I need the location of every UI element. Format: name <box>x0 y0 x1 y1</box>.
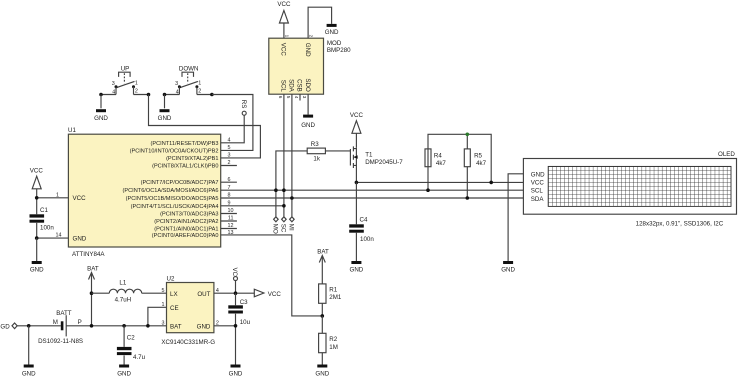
VCC symbol above T1 <box>350 112 364 148</box>
pin6 stub PA7 <box>221 181 237 183</box>
node UP right <box>147 93 151 97</box>
svg-text:(PCINT8/XTAL1/CLKI)PB0: (PCINT8/XTAL1/CLKI)PB0 <box>152 164 218 170</box>
svg-text:CSB: CSB <box>296 79 303 92</box>
pushbutton DOWN <box>165 66 212 96</box>
wire GD to battery <box>17 325 61 327</box>
svg-text:SC: SC <box>280 224 287 233</box>
node C2 <box>122 324 126 328</box>
svg-text:3: 3 <box>302 96 307 99</box>
svg-text:1: 1 <box>284 35 289 38</box>
svg-text:OUT: OUT <box>197 291 210 298</box>
svg-text:SDO: SDO <box>304 78 311 92</box>
node BAT battery row <box>90 324 94 328</box>
capacitor C4 <box>349 182 374 261</box>
svg-text:MO: MO <box>272 224 279 234</box>
svg-text:VC: VC <box>231 268 238 277</box>
svg-text:1M: 1M <box>329 344 338 351</box>
ground below UP <box>94 95 108 123</box>
svg-text:3: 3 <box>112 81 115 87</box>
node OUT <box>234 291 238 295</box>
resistor R3 <box>307 141 325 163</box>
svg-text:(PCINT5/OC1B/MISO/DO/ADC5)PA5: (PCINT5/OC1B/MISO/DO/ADC5)PA5 <box>126 196 219 202</box>
svg-text:L1: L1 <box>119 280 126 287</box>
wire pin14 GND <box>37 237 69 239</box>
wire OLED GND <box>508 174 523 262</box>
ground below DOWN <box>158 95 172 123</box>
pull-up rail <box>428 134 491 190</box>
svg-text:C2: C2 <box>127 334 135 341</box>
svg-text:1: 1 <box>135 81 138 87</box>
node R4 bottom <box>426 188 430 192</box>
svg-text:(PCINT10/INT0/OC0A/CKOUT)PB2: (PCINT10/INT0/OC0A/CKOUT)PB2 <box>130 148 219 154</box>
svg-text:GND: GND <box>30 266 44 273</box>
node CE <box>146 324 150 328</box>
svg-text:GD: GD <box>0 323 10 330</box>
svg-text:MOD: MOD <box>327 40 342 47</box>
svg-text:(PCINT11/RESET/DW)PB3: (PCINT11/RESET/DW)PB3 <box>151 141 219 147</box>
svg-text:4: 4 <box>294 96 299 99</box>
node rail to VCC row <box>489 181 493 185</box>
svg-text:U2: U2 <box>167 276 175 283</box>
node MO row <box>274 188 278 192</box>
svg-text:6: 6 <box>278 96 283 99</box>
svg-text:GND: GND <box>531 171 545 178</box>
svg-text:ATTINY84A: ATTINY84A <box>72 251 105 258</box>
wire UP to pin3 PB1 <box>149 95 261 158</box>
svg-text:R1: R1 <box>329 286 337 293</box>
svg-text:(PCINT0/AREF/ADC0)PA0: (PCINT0/AREF/ADC0)PA0 <box>152 233 219 239</box>
wire SDO to ground <box>307 94 309 114</box>
svg-text:BAT: BAT <box>170 323 182 330</box>
svg-text:RS: RS <box>240 100 247 109</box>
ground below C1 <box>30 238 44 273</box>
node C1-GND <box>35 236 39 240</box>
wire U2 GND row <box>214 326 236 365</box>
ground below U2 <box>229 365 243 377</box>
svg-text:C4: C4 <box>360 216 368 223</box>
capacitor C2 <box>117 326 146 365</box>
svg-text:VCC: VCC <box>350 112 364 119</box>
terminal VC <box>231 268 238 294</box>
terminal SC <box>280 217 287 233</box>
svg-text:GND: GND <box>501 267 515 274</box>
svg-text:GND: GND <box>117 371 131 377</box>
svg-text:128x32px, 0.91", SSD1306, I2C: 128x32px, 0.91", SSD1306, I2C <box>636 220 724 227</box>
terminal MO <box>272 217 279 234</box>
svg-text:GND: GND <box>325 29 339 36</box>
svg-text:VCC: VCC <box>30 168 44 175</box>
svg-text:OLED: OLED <box>718 151 735 158</box>
capacitor C1 <box>30 198 55 238</box>
svg-text:GND: GND <box>304 43 311 57</box>
wire RS to pin4 PB3 <box>221 115 245 143</box>
svg-text:U1: U1 <box>68 127 76 134</box>
svg-text:4k7: 4k7 <box>436 160 447 167</box>
ground below C2 <box>117 365 131 377</box>
module MOD BMP280 body <box>269 35 351 99</box>
svg-text:XC9140C331MR-G: XC9140C331MR-G <box>161 339 215 346</box>
wire pin13 battery sense <box>221 235 323 316</box>
svg-text:2: 2 <box>309 35 314 38</box>
node GD gnd <box>27 324 31 328</box>
wire BMP280 SDA down to MI terminal <box>291 94 293 217</box>
svg-text:BMP280: BMP280 <box>327 47 351 54</box>
wire U2 OUT row <box>214 292 254 294</box>
supply arrow BAT over divider <box>317 249 329 284</box>
node VCC-C1 <box>35 196 39 200</box>
svg-text:(PCINT6/OC1A/SDA/MOSI/ADC6)PA6: (PCINT6/OC1A/SDA/MOSI/ADC6)PA6 <box>123 188 219 194</box>
wire SCL row <box>221 189 524 191</box>
svg-text:3: 3 <box>175 81 178 87</box>
svg-text:LX: LX <box>170 291 178 298</box>
IC U2 XC9140C331MR-G body <box>161 276 219 347</box>
svg-text:UP: UP <box>121 66 130 73</box>
svg-text:(PCINT2/AIN1/ADC2)PA2: (PCINT2/AIN1/ADC2)PA2 <box>154 219 218 225</box>
svg-text:(PCINT7/ICP/OC0B/ADC7)PA7: (PCINT7/ICP/OC0B/ADC7)PA7 <box>141 180 219 186</box>
svg-text:(PCINT3/T0/ADC3)PA3: (PCINT3/T0/ADC3)PA3 <box>160 212 218 218</box>
svg-text:BAT: BAT <box>317 249 329 256</box>
svg-text:SDA: SDA <box>531 196 545 203</box>
svg-text:BATT: BATT <box>56 310 72 317</box>
resistor R2 <box>319 316 338 365</box>
supply arrow BAT over battery <box>87 265 99 326</box>
svg-text:DS1092-11-N8S: DS1092-11-N8S <box>38 338 83 345</box>
wire CE to BAT row <box>148 307 167 326</box>
node divider <box>321 314 325 318</box>
svg-text:100n: 100n <box>360 236 374 243</box>
svg-text:2: 2 <box>135 89 138 95</box>
svg-text:5: 5 <box>162 288 165 294</box>
inductor L1 <box>92 280 167 304</box>
ground below R2 <box>315 365 329 377</box>
node rail green <box>466 133 470 137</box>
pin10 stub PA3 <box>221 213 237 215</box>
ground below OLED <box>501 261 515 274</box>
pin11 stub PA2 <box>221 220 237 222</box>
svg-text:GND: GND <box>73 235 87 242</box>
ground below GD node <box>22 326 36 377</box>
capacitor C3 <box>228 293 250 326</box>
node T1 drain <box>355 181 359 185</box>
svg-text:SCL: SCL <box>531 188 544 195</box>
IC U1 ATTINY84A body <box>68 127 221 258</box>
wire pin1 VCC <box>37 197 69 199</box>
svg-text:4.7uH: 4.7uH <box>115 297 132 304</box>
svg-text:DMP2045U-7: DMP2045U-7 <box>365 159 403 166</box>
svg-text:GND: GND <box>350 267 364 274</box>
svg-text:GND: GND <box>158 115 172 122</box>
svg-text:M: M <box>53 319 58 326</box>
svg-text:4.7u: 4.7u <box>133 354 146 361</box>
svg-text:BAT: BAT <box>87 265 99 272</box>
svg-text:VCC: VCC <box>73 195 87 202</box>
terminal RS <box>240 100 247 115</box>
svg-text:C1: C1 <box>40 207 48 214</box>
terminal MI <box>288 217 295 231</box>
wire R3 left to MO line <box>276 151 307 217</box>
pin12 stub PA1 <box>221 228 237 230</box>
pushbutton UP <box>101 66 149 96</box>
pin CSB stub <box>299 94 301 100</box>
svg-text:GND: GND <box>315 371 329 377</box>
resistor R4 <box>425 149 446 167</box>
svg-text:R5: R5 <box>474 152 482 159</box>
svg-text:100n: 100n <box>40 225 54 232</box>
svg-text:VCC: VCC <box>268 291 282 298</box>
node BAT L1 <box>90 291 94 295</box>
svg-text:SCL: SCL <box>280 80 287 93</box>
node DOWN left <box>163 93 167 97</box>
svg-text:GND: GND <box>229 371 243 377</box>
terminal GD <box>0 323 17 330</box>
svg-text:R3: R3 <box>311 141 319 148</box>
ground below C4 <box>350 261 364 274</box>
svg-text:GND: GND <box>197 323 211 330</box>
svg-text:VCC: VCC <box>277 1 291 8</box>
svg-text:4k7: 4k7 <box>476 160 487 167</box>
svg-text:VCC: VCC <box>531 180 545 187</box>
U1 pin numbers <box>56 137 234 238</box>
display OLED body <box>523 151 736 228</box>
wire R3 right to T1 gate <box>325 150 350 152</box>
svg-text:2M1: 2M1 <box>329 294 342 301</box>
svg-text:SDA: SDA <box>288 79 295 93</box>
wire pin9 SCL row <box>221 205 284 207</box>
svg-text:GND: GND <box>94 115 108 122</box>
ground below SDO <box>301 115 315 130</box>
node SC crossing <box>282 188 286 192</box>
svg-text:C3: C3 <box>240 299 248 306</box>
wire VCC switched row to OLED <box>356 181 523 183</box>
node DOWN right <box>210 93 214 97</box>
resistor R1 <box>319 284 342 316</box>
svg-text:2: 2 <box>198 89 201 95</box>
transistor T1 DMP2045U-7 <box>350 146 403 182</box>
svg-text:10u: 10u <box>240 319 251 326</box>
svg-text:MI: MI <box>288 224 295 231</box>
resistor R5 <box>464 134 486 198</box>
svg-text:1: 1 <box>198 81 201 87</box>
svg-text:CE: CE <box>170 305 179 312</box>
svg-text:(PCINT1/AIN0/ADC1)PA1: (PCINT1/AIN0/ADC1)PA1 <box>154 227 218 233</box>
svg-text:4: 4 <box>176 89 179 95</box>
wire BMP280 GND pin2 <box>308 7 332 38</box>
svg-text:4: 4 <box>112 89 115 95</box>
wire battery to U2 BAT <box>66 325 166 327</box>
svg-text:GND: GND <box>301 122 315 129</box>
svg-text:P: P <box>78 319 82 326</box>
svg-text:R4: R4 <box>434 152 442 159</box>
wire SDA row <box>221 197 524 199</box>
VCC symbol above BMP280 <box>277 1 291 38</box>
node SC end <box>282 204 286 208</box>
svg-text:(PCINT4/T1/SCL/USCK/ADC4)PA4: (PCINT4/T1/SCL/USCK/ADC4)PA4 <box>131 204 219 210</box>
wire DOWN to pin5 PB2 <box>212 95 253 151</box>
svg-text:1k: 1k <box>313 156 320 163</box>
svg-text:(PCINT9/XTAL2)PB1: (PCINT9/XTAL2)PB1 <box>166 156 218 162</box>
wire BMP280 SCL down to SC terminal <box>283 94 285 217</box>
node MI row <box>290 196 294 200</box>
battery BATT DS1092-11-N8S <box>38 310 83 345</box>
svg-text:T1: T1 <box>365 151 373 158</box>
node UP left <box>99 93 103 97</box>
ground top right of BMP280 <box>325 24 339 36</box>
node R5 bottom <box>466 196 470 200</box>
svg-text:R2: R2 <box>329 336 337 343</box>
VCC symbol left <box>30 168 44 198</box>
svg-text:GND: GND <box>22 371 36 377</box>
node C3 bottom <box>234 324 238 328</box>
svg-text:VCC: VCC <box>280 43 287 57</box>
svg-text:DOWN: DOWN <box>179 66 199 73</box>
supply arrow VCC right <box>254 289 281 298</box>
svg-text:3: 3 <box>162 320 165 326</box>
pin2 stub PB0 <box>221 165 237 167</box>
svg-text:5: 5 <box>286 96 291 99</box>
